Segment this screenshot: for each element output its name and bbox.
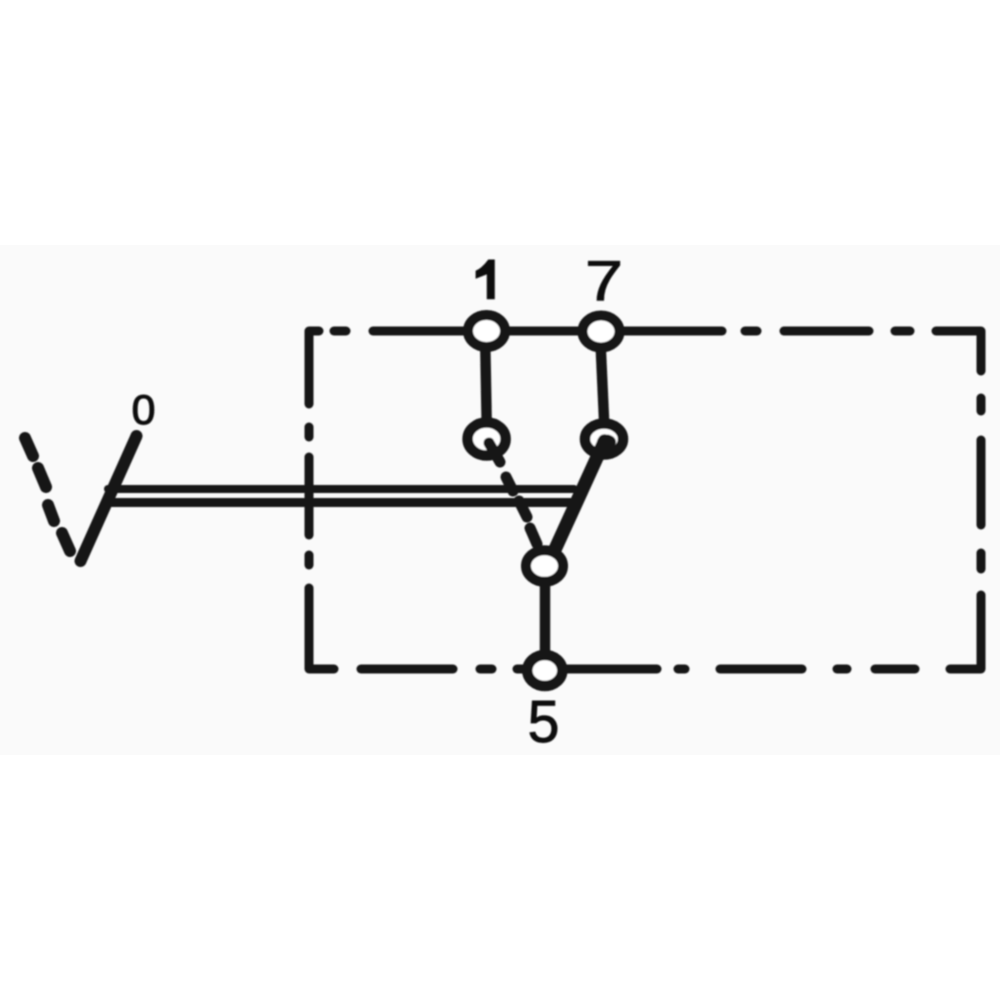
enclosure bottom side solid segment through terminal 5 (517, 665, 657, 674)
enclosure left side dash (305, 457, 314, 535)
switch arm closed on contact 7 (552, 441, 605, 556)
svg-text:7: 7 (585, 250, 623, 313)
fixed contact under terminal 1 (468, 423, 506, 456)
enclosure right side dot (977, 553, 986, 569)
enclosure bottom side dash (720, 665, 802, 674)
pin label 1 (476, 260, 495, 300)
enclosure right side dash (977, 440, 986, 525)
enclosure bottom side dot (480, 665, 492, 674)
enclosure bottom side dot (678, 665, 685, 674)
enclosure top-right corner (936, 331, 981, 371)
enclosure left side dot (305, 427, 314, 437)
wire terminal 7 to fixed contact (600, 331, 605, 441)
enclosure top-left corner (309, 331, 319, 404)
terminal 1 contact circle (468, 315, 505, 347)
enclosure left side dot (305, 555, 314, 565)
enclosure bottom-right corner (950, 595, 981, 669)
enclosure top side dash (334, 327, 346, 336)
enclosure top side dash (784, 327, 869, 336)
terminal 7 contact circle (583, 316, 620, 348)
enclosure top side dot (895, 327, 910, 336)
enclosure bottom side dot (837, 665, 847, 674)
enclosure top side dot (745, 327, 757, 336)
switch arm dashed alternate position to contact 1 (489, 443, 537, 544)
enclosure top side solid segment through terminals 1 and 7 (373, 327, 722, 336)
fixed contact under terminal 7 (585, 424, 623, 455)
enclosure right side dot (977, 398, 986, 411)
movable contact pivot circle (526, 550, 563, 582)
actuator linkage double line upper (108, 485, 574, 493)
actuator lever solid position (81, 436, 137, 561)
wire movable pivot to terminal 5 (540, 565, 551, 670)
enclosure bottom-left corner (309, 588, 334, 669)
actuator linkage double line lower (108, 498, 571, 507)
enclosure bottom side dash (875, 665, 915, 674)
terminal 5 contact circle (527, 655, 562, 686)
svg-text:0: 0 (132, 386, 156, 433)
wire terminal 1 to fixed contact (485, 331, 487, 440)
actuator lever dashed alternate position (25, 438, 70, 551)
svg-text:5: 5 (528, 689, 560, 755)
enclosure bottom side dash (361, 665, 453, 674)
